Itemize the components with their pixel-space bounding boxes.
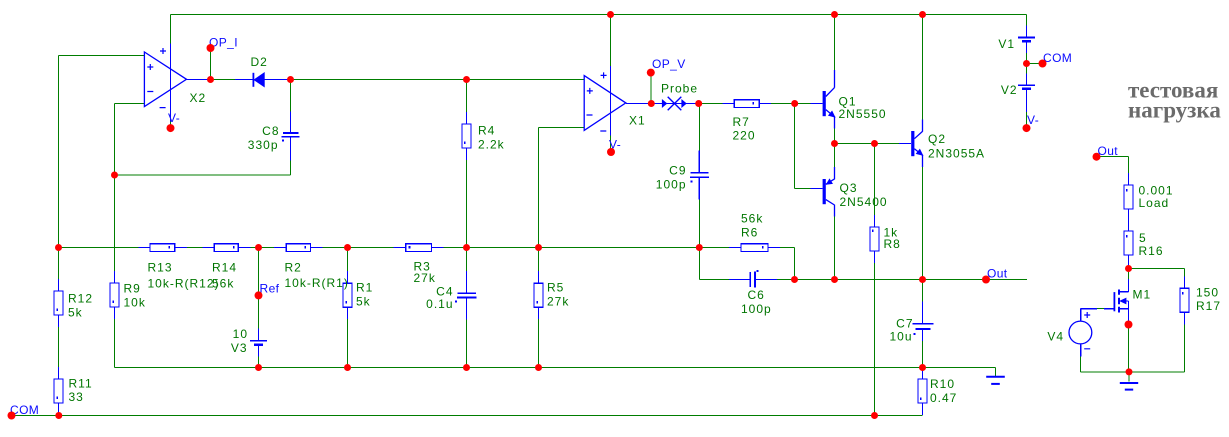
wire out row (699, 248, 1027, 280)
svg-text:56k: 56k (212, 277, 234, 291)
capacitor C8 (281, 112, 299, 161)
svg-text:Load: Load (1139, 196, 1170, 210)
wire R1 column (347, 248, 349, 368)
resistor R8 (870, 215, 879, 263)
wire X2 +in (59, 56, 145, 248)
wire V1 top green (1026, 15, 1028, 26)
wire Q3 base column (795, 104, 811, 189)
wire gnd1 stub (995, 368, 997, 376)
junction out row C7 (919, 276, 926, 283)
svg-text:X2: X2 (190, 91, 207, 105)
wire R11 bottom area (58, 367, 60, 379)
junction row Ref (255, 244, 262, 251)
svg-text:10u: 10u (889, 330, 912, 344)
wire V3 bottom (258, 357, 260, 368)
wire Q1 collector (834, 15, 836, 71)
svg-text:R2: R2 (285, 261, 302, 275)
resistor R5 (534, 271, 543, 319)
junction R8 top (871, 140, 878, 147)
wire M1 gate run (1097, 308, 1104, 310)
svg-text:R8: R8 (884, 237, 901, 251)
svg-text:0.1u: 0.1u (426, 297, 453, 311)
wire X1 -in (539, 128, 585, 248)
ground near C7 (986, 377, 1005, 384)
wire R12 leads (58, 248, 60, 368)
svg-text:R11: R11 (69, 377, 93, 391)
resistor R1 (343, 271, 352, 319)
capacitor C9 (690, 151, 709, 200)
wire R16 to R17 row (1129, 269, 1185, 277)
svg-text:R13: R13 (148, 261, 173, 275)
svg-text:нагрузка: нагрузка (1128, 98, 1221, 123)
wire R6 row green parts (699, 248, 794, 280)
wire M1 drain green (1128, 269, 1130, 280)
junction top bus Q1 (831, 11, 838, 18)
svg-text:Q3: Q3 (840, 181, 858, 195)
node dot OP_I (207, 44, 215, 52)
wire X2 out row green parts (212, 79, 584, 81)
node dot OP_V (647, 69, 655, 77)
svg-text:56k: 56k (741, 212, 763, 226)
junction bottom bus R1 (344, 364, 351, 371)
node dot V- X2 (167, 124, 175, 132)
transistor Q3 (810, 167, 834, 217)
junction row R1 (344, 244, 351, 251)
svg-text:V2: V2 (1001, 83, 1018, 97)
svg-text:Out: Out (1098, 144, 1119, 158)
svg-text:R5: R5 (547, 281, 564, 295)
transistor Q2 (899, 120, 923, 168)
junction Q1 emitter (831, 140, 838, 147)
junction row C9 (696, 244, 703, 251)
svg-text:R16: R16 (1139, 244, 1164, 258)
ground near M1 (1120, 383, 1138, 390)
svg-text:330p: 330p (248, 138, 279, 152)
svg-text:C9: C9 (669, 164, 686, 178)
svg-text:R10: R10 (930, 377, 955, 391)
resistor R13 (138, 244, 187, 252)
mosfet M1 (1104, 279, 1129, 325)
wire X1 V+ drop (610, 15, 612, 67)
junction V1 bottom (1023, 60, 1030, 67)
svg-text:Q2: Q2 (928, 132, 946, 146)
svg-text:V-: V- (168, 111, 180, 125)
wire C8 return (115, 174, 291, 176)
svg-text:150: 150 (1196, 286, 1219, 300)
capacitor C6 (729, 270, 777, 288)
svg-text:100p: 100p (656, 178, 687, 192)
node dot COM top (1039, 60, 1047, 68)
junction probe out (695, 100, 702, 107)
probe (662, 97, 698, 111)
node dot V- X1 (607, 148, 615, 156)
battery V3 (250, 329, 267, 357)
resistor R9 (110, 271, 119, 319)
junction top bus Q2 (919, 11, 926, 18)
junction C8 return (111, 172, 118, 179)
svg-text:Out: Out (987, 267, 1008, 281)
junction out row Q3 (831, 276, 838, 283)
svg-text:10k: 10k (124, 296, 146, 310)
junction top bus X1 (607, 11, 614, 18)
svg-text:C7: C7 (896, 317, 913, 331)
svg-text:10k-R(R12): 10k-R(R12) (148, 277, 220, 291)
battery V2 (1018, 74, 1035, 113)
svg-text:C6: C6 (748, 288, 765, 302)
svg-text:2N5400: 2N5400 (840, 195, 888, 209)
node dot Out right (1093, 153, 1101, 161)
junction M1 source (1125, 321, 1133, 329)
node dot COM left (8, 412, 16, 420)
svg-text:R1: R1 (356, 281, 373, 295)
svg-text:R7: R7 (733, 115, 750, 129)
node dot Ref (255, 291, 263, 299)
wire top bus (171, 14, 1027, 16)
junction bottom bus V3 (255, 364, 262, 371)
node dot Out mid (982, 276, 990, 284)
junction COM R11 (55, 412, 62, 419)
wire Q2 collector (922, 15, 924, 120)
wire R17 bottom (1184, 324, 1186, 372)
wire gnd2 stub (1128, 372, 1130, 382)
svg-text:C8: C8 (262, 124, 279, 138)
junction X2 out (207, 76, 214, 83)
diode D2 (235, 73, 289, 87)
resistor R17 (1180, 276, 1189, 324)
resistor R11 (54, 367, 63, 415)
svg-text:COM: COM (1043, 51, 1072, 65)
svg-text:27k: 27k (414, 271, 436, 285)
resistor Load (1124, 173, 1133, 231)
op-amp X1 (584, 66, 662, 136)
svg-text:2.2k: 2.2k (478, 138, 505, 152)
svg-text:100p: 100p (741, 302, 772, 316)
resistor R12 (54, 279, 63, 327)
wire R7 row green parts (699, 103, 811, 105)
capacitor C7 (912, 302, 933, 341)
wire OP_V stub (650, 73, 652, 104)
junction row R5 (535, 244, 542, 251)
transistor Q1 (810, 70, 835, 129)
svg-text:10k-R(R1): 10k-R(R1) (285, 276, 349, 290)
wire M1 source down (1128, 325, 1130, 372)
wire C9 column (698, 104, 700, 280)
svg-text:OP_V: OP_V (652, 57, 686, 71)
svg-text:Probe: Probe (661, 81, 698, 95)
junction bottom bus C7 (919, 364, 926, 371)
wire X2 -in (115, 104, 145, 272)
svg-text:0.47: 0.47 (930, 391, 957, 405)
svg-text:5k: 5k (68, 306, 83, 320)
wire Out2 to load (1097, 157, 1129, 173)
wire V2 bottom (1026, 112, 1028, 128)
resistor R7 (722, 100, 771, 108)
svg-text:D2: D2 (251, 55, 268, 69)
junction X1 out (648, 100, 655, 107)
wire X2 V- stub (170, 122, 172, 128)
node dot V- V2 (1023, 124, 1031, 132)
wire C4 column (466, 248, 468, 368)
voltage source V4 (1069, 309, 1097, 357)
svg-text:Ref: Ref (260, 282, 280, 296)
junction R16 bottom (1125, 265, 1132, 272)
wire mid resistor row green parts (59, 247, 700, 249)
resistor R10 (918, 368, 927, 416)
resistor R6 (729, 244, 780, 252)
wire Q2 base row (835, 143, 900, 145)
battery V1 (1018, 26, 1035, 53)
svg-text:2N3055A: 2N3055A (928, 147, 985, 161)
wire R4 column (466, 80, 468, 248)
svg-text:M1: M1 (1133, 288, 1152, 302)
wire V4 bottom (1081, 357, 1185, 372)
resistor R2 (274, 244, 322, 252)
wire Q3 collector down (834, 217, 836, 280)
junction R7 Q3base (791, 100, 798, 107)
wire Ref column (258, 248, 260, 329)
svg-text:R14: R14 (212, 261, 237, 275)
svg-text:V3: V3 (231, 341, 248, 355)
svg-text:R17: R17 (1196, 299, 1221, 313)
svg-text:R6: R6 (741, 226, 758, 240)
svg-text:2N5550: 2N5550 (839, 107, 887, 121)
wire bottom bus (115, 367, 996, 369)
resistor R4 (462, 112, 471, 160)
op-amp X2 (144, 44, 212, 122)
svg-text:R12: R12 (68, 292, 93, 306)
wire R8 column (874, 144, 876, 416)
wire Q3 emitter (834, 144, 836, 168)
wire R5 column (538, 248, 540, 368)
junction D2 cathode (287, 76, 294, 83)
wire Q1 emitter to row (834, 129, 836, 144)
svg-text:33: 33 (69, 390, 84, 404)
wire R9 bottom (114, 319, 116, 368)
wire X1 V- stub (610, 136, 612, 152)
capacitor C4 (455, 271, 476, 319)
svg-text:10: 10 (233, 327, 248, 341)
svg-text:R4: R4 (478, 124, 495, 138)
junction row R12 (55, 244, 62, 251)
svg-text:X1: X1 (629, 114, 646, 128)
junction out row C6 (791, 276, 798, 283)
wire COM bus (12, 415, 923, 417)
svg-text:5k: 5k (356, 295, 371, 309)
svg-text:27k: 27k (547, 295, 569, 309)
junction bottom bus C4 (463, 364, 470, 371)
junction R4 top (463, 76, 470, 83)
resistor R16 (1124, 231, 1133, 269)
resistor R14 (202, 244, 250, 252)
svg-text:220: 220 (733, 129, 756, 143)
wire Q2 emitter down (922, 167, 924, 280)
wire V1 to COM link (1027, 53, 1043, 74)
svg-text:V1: V1 (998, 37, 1015, 51)
resistor R3 (394, 244, 444, 252)
junction bottom bus R5 (535, 364, 542, 371)
junction COM R8 (871, 412, 878, 419)
svg-text:R9: R9 (124, 282, 141, 296)
wire C7 column (922, 280, 924, 368)
wire X2 V+ drop (170, 15, 172, 44)
junction row C4 (463, 244, 470, 251)
wire C8 column (290, 80, 292, 176)
wire OP_I stub (210, 48, 212, 80)
svg-text:V4: V4 (1047, 330, 1064, 344)
junction load ground (1126, 368, 1133, 375)
